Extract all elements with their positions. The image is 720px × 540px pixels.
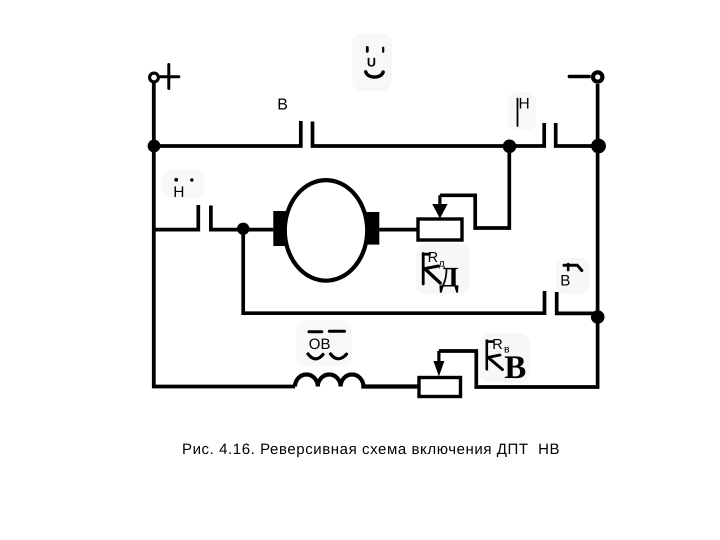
svg-text:Рис. 4.16. Реверсивная схема в: Рис. 4.16. Реверсивная схема включения Д… <box>182 441 560 458</box>
svg-text:Д: Д <box>439 262 459 293</box>
svg-text:ОВ: ОВ <box>309 336 331 353</box>
svg-text:R: R <box>492 337 502 353</box>
svg-text:Н: Н <box>173 184 184 201</box>
svg-text:U: U <box>367 55 376 69</box>
svg-text:В: В <box>504 350 526 386</box>
svg-text:В: В <box>277 97 288 114</box>
svg-text:В: В <box>560 273 570 290</box>
svg-text:R: R <box>428 250 438 266</box>
svg-text:Н: Н <box>519 96 530 113</box>
